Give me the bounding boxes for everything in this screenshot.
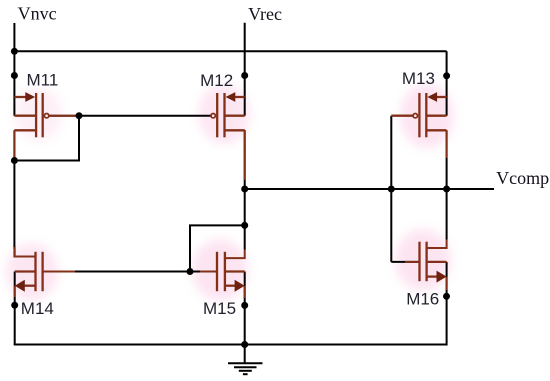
- transistor M11 (PMOS): [14, 92, 48, 256]
- wire bottom ground rail: [14, 344, 447, 346]
- junction dot output net at M13 drain: [443, 186, 450, 193]
- wire maroon pin lead M12 drain: [244, 130, 246, 180]
- wire maroon pin lead M11 drain: [13, 130, 15, 158]
- wire maroon pin lead M11 gate: [49, 115, 79, 117]
- transistor M12 (PMOS): [211, 92, 245, 258]
- wire right rail drop to M13 source: [446, 51, 448, 115]
- wire M11 drain down to M14 drain: [13, 130, 15, 249]
- ground: [228, 345, 263, 375]
- svg-text:M15: M15: [203, 299, 236, 318]
- junction dot M15 diode top: [241, 222, 248, 229]
- pink jpeg halo behind M14: [6, 243, 58, 301]
- svg-text:Vrec: Vrec: [248, 4, 282, 24]
- transistor M16 (NMOS): [420, 240, 447, 283]
- wire M14 gate to M15 gate: [43, 271, 217, 273]
- wire middle output net: [245, 188, 447, 190]
- wire Vrec lead (middle vertical): [244, 23, 246, 116]
- svg-text:Vnvc: Vnvc: [18, 4, 57, 24]
- wire M12 drain down to M15 drain: [244, 130, 246, 249]
- pink jpeg halo behind M13: [400, 84, 454, 148]
- wire output net down to M16 drain: [446, 189, 448, 240]
- pink jpeg halo behind M11: [14, 87, 62, 141]
- junction dot M15 gate: [187, 268, 194, 275]
- wire maroon pin lead M14 gate: [43, 271, 75, 273]
- wire M16 source-bulk down to bottom rail corner: [446, 262, 448, 346]
- wire maroon pin lead M16 source: [446, 277, 448, 290]
- wire M14 source-bulk down to bottom rail: [14, 272, 16, 345]
- junction dot M11 gate: [76, 112, 83, 119]
- wire M13 gate down to M16 gate: [390, 116, 392, 262]
- svg-text:M14: M14: [21, 299, 54, 318]
- junction dot output net at M12 drain: [241, 186, 248, 193]
- svg-text:Vcomp: Vcomp: [496, 168, 549, 188]
- wire M16 gate horizontal: [391, 261, 419, 263]
- junction dot ground rail: [241, 341, 248, 348]
- wire Vnvc lead (left vertical): [13, 23, 15, 116]
- wire Vcomp stub: [447, 188, 494, 190]
- node dot M11 source: [11, 72, 18, 79]
- junction dot output net at M13 gate: [388, 186, 395, 193]
- svg-text:M12: M12: [200, 71, 233, 90]
- svg-text:M13: M13: [402, 69, 435, 88]
- wire M15 gate-drain diode connection: [190, 225, 245, 271]
- junction dot M11 drain-diode: [11, 157, 18, 164]
- wire maroon pin lead M14 source: [14, 286, 16, 297]
- node dot M13 source: [443, 72, 450, 79]
- wire M11 gate-drain diode connection: [14, 116, 79, 161]
- wire top supply rail: [13, 50, 446, 52]
- pink jpeg halo behind M16: [395, 229, 451, 291]
- transistor M14 (NMOS): [15, 247, 43, 292]
- node dot M15 source: [241, 302, 248, 309]
- wire maroon pin lead M13 drain: [446, 130, 448, 158]
- wire M15 source-bulk down to bottom rail: [244, 272, 246, 345]
- wire M11 gate to M12 gate: [49, 115, 211, 117]
- svg-text:M16: M16: [406, 289, 439, 308]
- wire maroon pin lead M15 source: [244, 286, 246, 298]
- transistor M13 (PMOS): [391, 92, 446, 137]
- node dot M14 source: [11, 302, 18, 309]
- pink jpeg halo behind M15: [192, 239, 248, 301]
- pink jpeg halo behind M12: [198, 84, 250, 144]
- node dot M12 source: [241, 72, 248, 79]
- transistor M15 (NMOS): [217, 252, 245, 292]
- wire M13 drain down to output net: [446, 130, 448, 189]
- wire maroon pin lead M15 gate: [200, 271, 217, 273]
- svg-text:M11: M11: [27, 70, 59, 89]
- junction dot top rail left: [11, 48, 18, 55]
- wire maroon pin lead M16 gate: [405, 261, 420, 263]
- node dot M16 source: [443, 293, 450, 300]
